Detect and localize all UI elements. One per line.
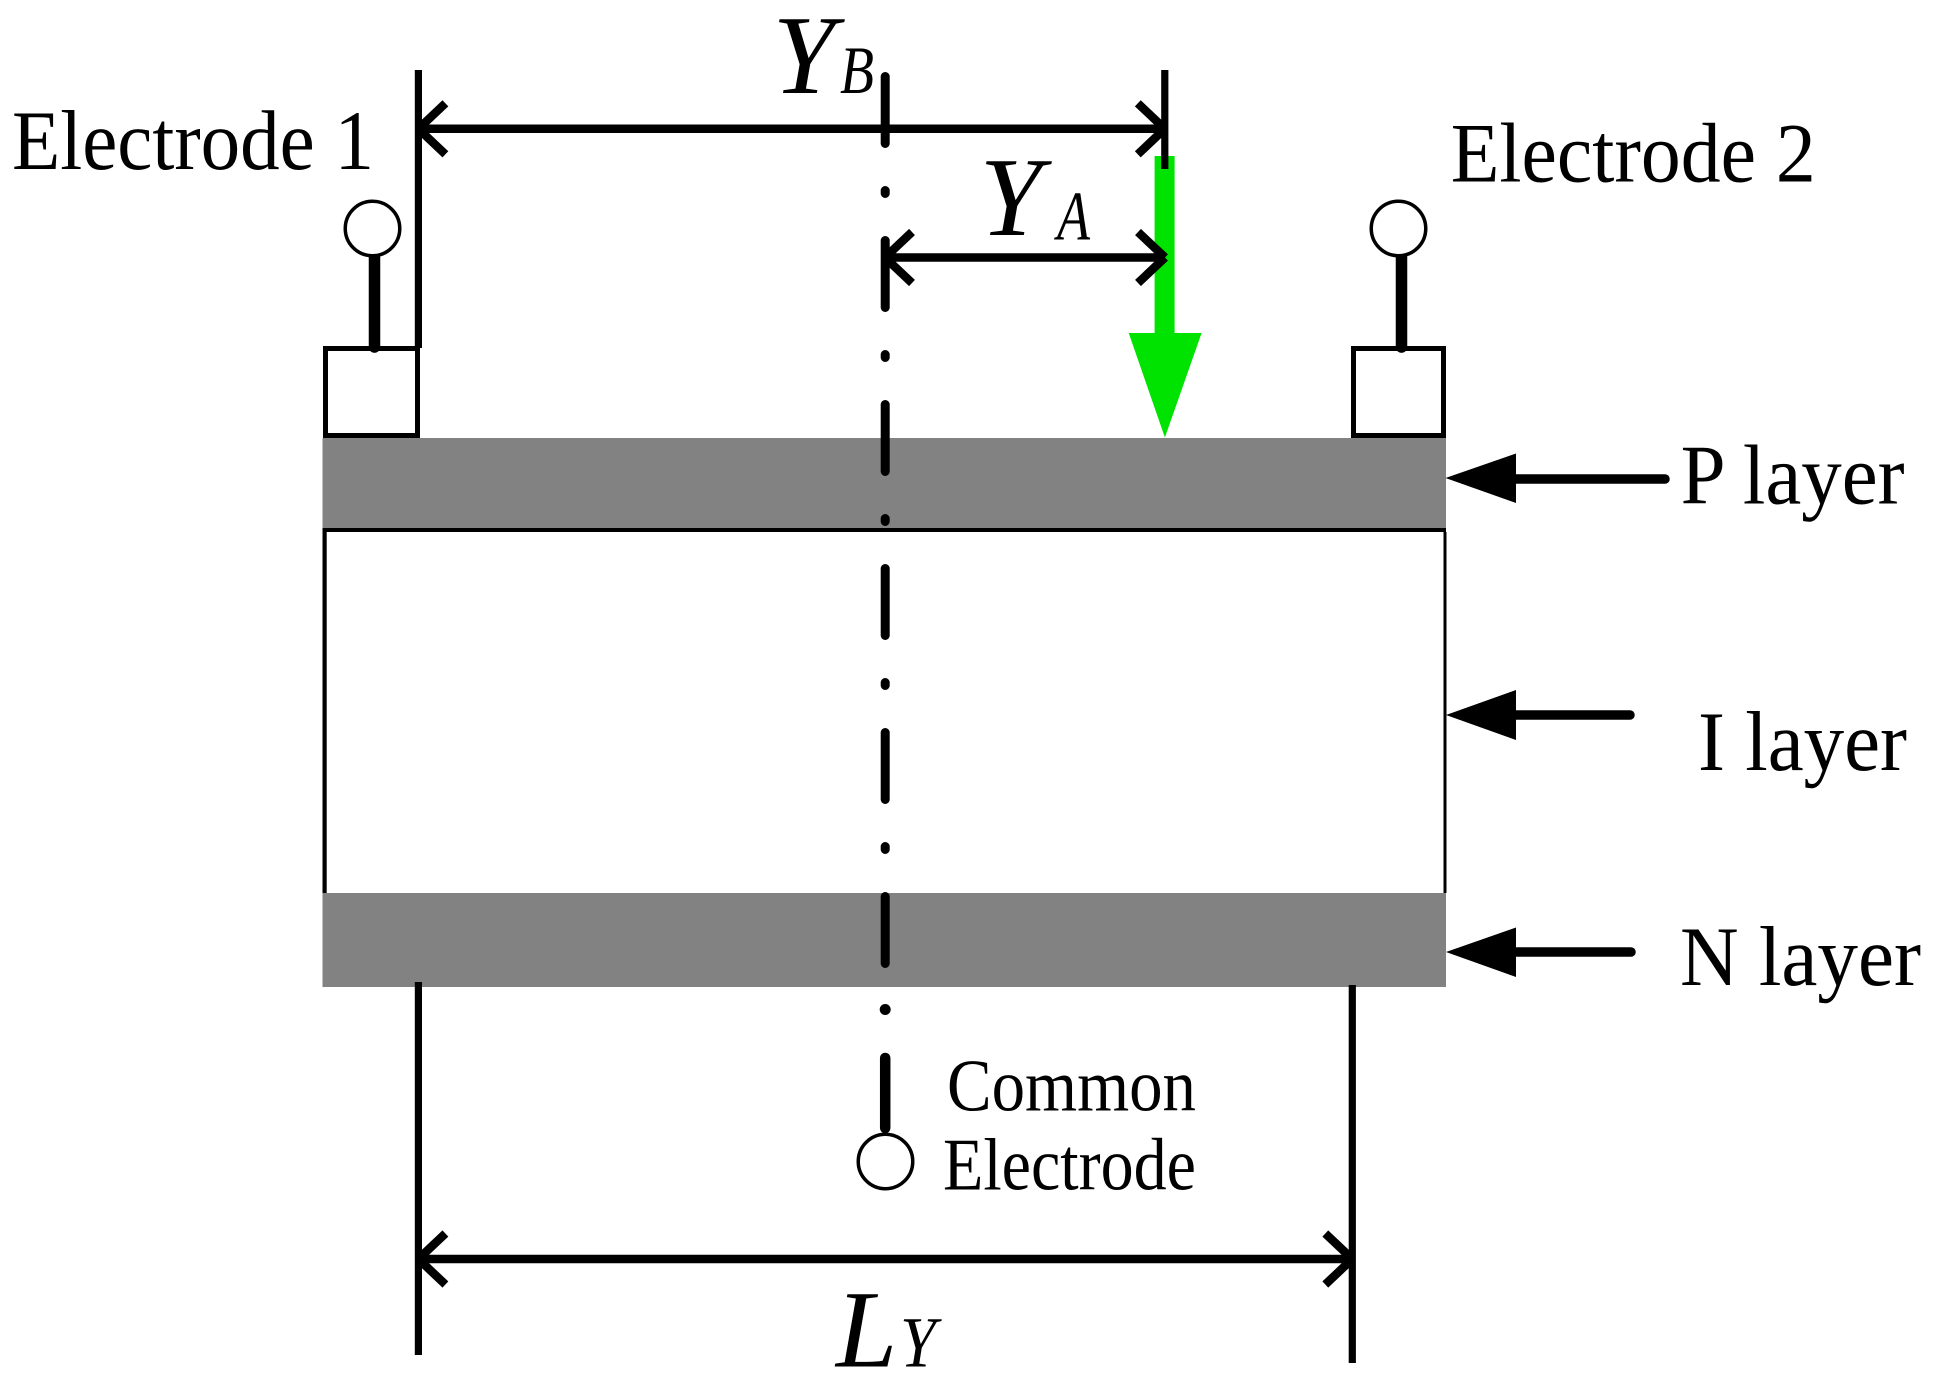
center axis final dot (880, 1004, 891, 1015)
svg-text:P layer: P layer (1681, 429, 1905, 523)
YA dimension line (885, 232, 1165, 283)
I layer left border wire (323, 532, 327, 893)
center dash-dot axis line (881, 77, 890, 964)
svg-text:L: L (834, 1269, 897, 1389)
extension line bottom right (1349, 985, 1356, 1363)
svg-text:Y: Y (773, 0, 846, 118)
svg-text:Common: Common (947, 1046, 1196, 1128)
common electrode terminal circle (858, 1134, 913, 1189)
I layer pointer arrow (1446, 690, 1630, 740)
svg-text:Y: Y (900, 1303, 942, 1383)
I layer right border wire (1444, 532, 1447, 893)
label LY (834, 1269, 942, 1389)
electrode 1 terminal circle (345, 201, 400, 256)
svg-text:Y: Y (980, 136, 1053, 260)
YB dimension line (418, 103, 1164, 154)
electrode 2 lead wire (1396, 253, 1408, 347)
svg-text:Electrode: Electrode (943, 1125, 1196, 1207)
svg-text:N layer: N layer (1680, 910, 1921, 1004)
LY dimension line (418, 1234, 1352, 1285)
P layer pointer arrow (1446, 454, 1666, 504)
svg-text:B: B (840, 32, 874, 108)
svg-text:A: A (1054, 179, 1090, 256)
electrode 1 lead wire (369, 253, 381, 347)
svg-text:Electrode 2: Electrode 2 (1451, 107, 1816, 201)
P layer gray slab (323, 438, 1447, 528)
incident light green arrow (1129, 156, 1202, 438)
extension line top right (1161, 70, 1168, 169)
label YB (773, 0, 874, 118)
electrode 2 contact pad (1354, 349, 1444, 436)
svg-text:Electrode 1: Electrode 1 (12, 94, 374, 188)
N layer pointer arrow (1446, 928, 1631, 978)
label YA (980, 136, 1091, 260)
N layer gray slab (323, 893, 1447, 987)
electrode 2 terminal circle (1371, 201, 1426, 256)
electrode 1 contact pad (326, 349, 418, 436)
P/I boundary line (323, 528, 1447, 532)
extension line bottom left (415, 982, 422, 1355)
extension line top left (415, 70, 422, 348)
svg-text:I layer: I layer (1698, 695, 1907, 789)
common electrode lead wire (880, 1058, 891, 1128)
